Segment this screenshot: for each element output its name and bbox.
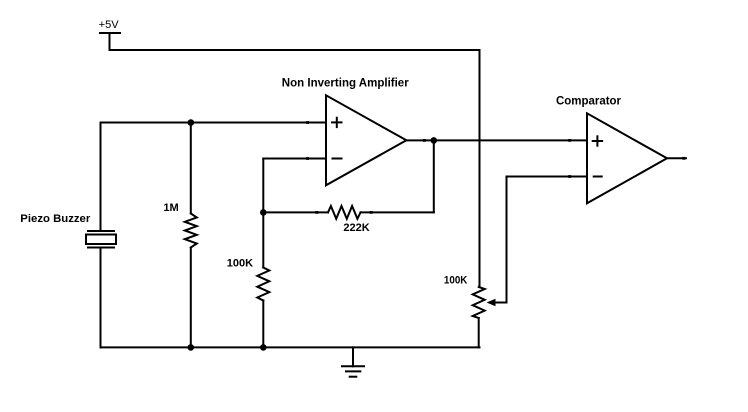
svg-text:Piezo Buzzer: Piezo Buzzer xyxy=(20,213,91,225)
svg-text:1M: 1M xyxy=(163,202,178,214)
svg-text:Comparator: Comparator xyxy=(556,94,621,108)
svg-text:222K: 222K xyxy=(343,222,369,234)
svg-text:+5V: +5V xyxy=(99,19,120,31)
svg-text:100K: 100K xyxy=(227,257,253,269)
svg-text:100K: 100K xyxy=(444,275,468,287)
svg-text:Non Inverting Amplifier: Non Inverting Amplifier xyxy=(282,76,409,90)
